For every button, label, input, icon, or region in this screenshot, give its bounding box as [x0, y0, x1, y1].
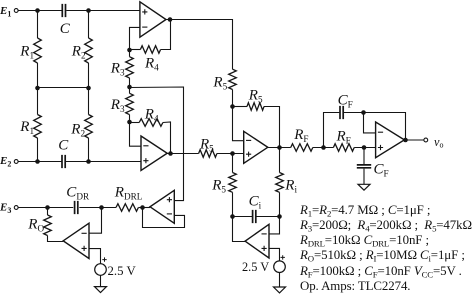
wire U3 output down to Ri: [279, 148, 281, 173]
voltage source 2.5 V (U4 ref): [274, 261, 286, 273]
svg-text:R5: R5: [211, 178, 226, 195]
node RF midpoint: [321, 145, 326, 150]
wire RF1 to RF2: [313, 147, 334, 149]
wire CF to U7 output: [344, 113, 406, 141]
capacitor CF (feedback): [340, 106, 343, 119]
wire U2 - input to R4b node: [130, 123, 142, 147]
wire node to R5 bottom: [232, 154, 234, 173]
svg-text:R3: R3: [110, 97, 125, 114]
electrode terminal E3: [14, 206, 18, 210]
node R3a/R4a junction: [127, 48, 132, 53]
wire R1b to E2 row: [37, 138, 39, 162]
resistor R1 (lower): [34, 115, 42, 139]
wire node to Ci: [233, 216, 253, 218]
wire U7 - input to output net: [364, 113, 376, 133]
capacitor Ci: [253, 210, 256, 223]
resistor R4 (U2 feedback): [139, 119, 163, 127]
resistor R2 (upper): [85, 38, 93, 63]
node CF/U7 - input: [361, 110, 366, 115]
node U7 output: [403, 138, 408, 143]
svg-text:R2: R2: [70, 121, 85, 138]
wire R5v to feedback node: [232, 90, 234, 107]
output terminal vo: [424, 138, 428, 142]
wire R5 to U3 + input: [217, 153, 244, 155]
node CDR/RDRL junction: [99, 205, 104, 210]
capacitor C (E1 coupling): [62, 4, 65, 17]
resistor RO: [44, 215, 52, 236]
ground (U4 ref): [274, 287, 286, 293]
wire node down to CF2: [363, 148, 365, 165]
node mid rail right: [86, 86, 91, 91]
node U1 output: [168, 17, 173, 22]
svg-text:Ri: Ri: [284, 178, 297, 195]
resistor RF (first): [291, 144, 313, 152]
wire common-mode sense to U5 + input: [130, 87, 184, 201]
wire node to R5 feedback: [233, 106, 248, 108]
resistor RDRL: [116, 204, 138, 212]
svg-text:Ci: Ci: [249, 194, 262, 211]
wire U6 + input to 2.5V source: [89, 249, 101, 264]
wire node to R2a: [88, 11, 90, 39]
component values text: [300, 203, 474, 295]
wire C1 to op-amp U1 + input: [66, 10, 140, 12]
wire E3 to CDR: [18, 207, 73, 209]
wire CF2 to ground: [363, 169, 365, 185]
svg-text:R1: R1: [19, 44, 34, 61]
wire E2 to capacitor C2: [18, 161, 62, 163]
wire RF midpoint up to CF: [324, 113, 340, 148]
wire source to ground: [100, 275, 102, 286]
wire Ci to node: [256, 216, 279, 218]
wire R3b to R4b node: [129, 115, 131, 123]
resistor R1 (upper): [34, 38, 42, 63]
wire node to R4b: [130, 122, 140, 124]
wire E1 to capacitor C1: [18, 10, 62, 12]
resistor R5 (U3 input): [199, 150, 217, 158]
wire mid rail: [38, 87, 89, 89]
svg-text:vo: vo: [434, 135, 443, 149]
wire R2b to E2 row: [88, 138, 90, 162]
svg-text:2.5 V: 2.5 V: [242, 260, 269, 274]
svg-text:2.5 V: 2.5 V: [108, 264, 137, 278]
node Ci left: [230, 214, 235, 219]
wire C2 to op-amp U2 + input: [66, 161, 141, 163]
svg-text:CF: CF: [338, 92, 353, 109]
wire U6 - input to CDR node: [89, 208, 102, 234]
node E3/RO junction: [45, 205, 50, 210]
wire mid rail to R1b: [37, 88, 39, 115]
wire source to ground: [279, 273, 281, 288]
op-amp U7 (output): [376, 122, 405, 158]
node U7 + input: [362, 145, 367, 150]
svg-text:CDR: CDR: [66, 184, 90, 201]
input terminal E1: [14, 9, 18, 13]
wire U3 output to RF1: [268, 147, 291, 149]
node U2 output: [168, 151, 173, 156]
svg-text:E3: E3: [0, 202, 11, 215]
resistor RF (second): [333, 144, 354, 152]
svg-text:R1: R1: [19, 119, 34, 136]
node R3b/R4b junction: [127, 120, 132, 125]
wire node to R1a: [37, 11, 39, 39]
node U3 - network junction: [230, 104, 235, 109]
wire U4 - input up to Ci right node: [269, 217, 280, 234]
wire R5 bottom to Ci row: [232, 192, 234, 216]
wire U4 + input to 2.5V source: [269, 248, 280, 261]
svg-text:R5: R5: [212, 75, 227, 92]
op-amp U2: [141, 136, 167, 171]
svg-text:R5: R5: [199, 136, 214, 153]
wire mid rail to R2b: [88, 88, 90, 115]
wire node to R4a: [130, 49, 141, 51]
node U3 + input / R5 bottom: [230, 151, 235, 156]
node Ci right: [277, 214, 282, 219]
resistor R3 (upper): [126, 57, 134, 78]
svg-text:RF: RF: [293, 127, 308, 144]
wire U1 output to R5 vertical: [166, 20, 233, 70]
wire RF2 to U7 + input: [354, 147, 375, 149]
wire R5 feedback to U3 output: [264, 107, 280, 148]
capacitor C (E2 coupling): [62, 155, 65, 168]
wire R1a to mid rail: [37, 63, 39, 88]
op-amp U3: [244, 131, 268, 163]
wire U3 - input to node: [233, 107, 244, 141]
ground (CF): [358, 184, 370, 190]
capacitor CF (to ground): [357, 165, 371, 168]
wire RO to U6 output: [48, 236, 64, 242]
svg-text:R4: R4: [144, 106, 159, 123]
svg-text:RDRL: RDRL: [114, 184, 143, 201]
node U5 output/feedback: [140, 205, 145, 210]
wire R3a to R3b: [129, 78, 131, 93]
wire to R3a: [129, 50, 131, 57]
capacitor CDR: [75, 201, 78, 214]
wire R2a to mid rail: [88, 63, 90, 88]
voltage source 2.5 V (U6 ref): [95, 264, 107, 276]
op-amp U4: [245, 224, 269, 258]
wire U5 output to RDRL: [138, 207, 150, 209]
resistor R5 (from U1 output): [229, 69, 237, 89]
wire Ri to Ci row: [279, 192, 281, 216]
resistor Ri: [276, 173, 284, 193]
wire node to RO: [47, 208, 49, 216]
svg-text:E1: E1: [0, 5, 11, 18]
input terminal E2: [14, 160, 18, 164]
wire R4a to U1 output: [161, 20, 171, 50]
resistor R3 (lower): [126, 93, 134, 114]
node E1/R1a junction: [35, 8, 40, 13]
wire U4 output to Ci left node: [233, 217, 246, 242]
wire CDR to RDRL: [79, 207, 116, 209]
node E2/R1b junction: [35, 159, 40, 164]
wire U7 output to vo terminal: [404, 139, 424, 141]
resistor R2 (lower): [85, 115, 93, 139]
op-amp U1: [140, 2, 166, 37]
op-amp U5 (DRL driver): [150, 190, 174, 223]
svg-text:RO: RO: [27, 216, 44, 233]
node C1/R2a junction: [86, 8, 91, 13]
svg-text:C: C: [58, 137, 69, 153]
svg-text:R3: R3: [110, 60, 125, 77]
op-amp U6 (E3 buffer): [63, 223, 89, 258]
ground (U6 ref): [95, 287, 107, 293]
svg-text:RF: RF: [336, 129, 351, 146]
svg-text:R2: R2: [71, 44, 86, 61]
node C2/R2b junction: [86, 159, 91, 164]
resistor R5 (U3 feedback): [247, 103, 264, 111]
svg-text:R5: R5: [248, 88, 263, 105]
resistor R5 (bottom): [229, 173, 237, 193]
svg-text:E2: E2: [0, 155, 11, 168]
resistor R4 (U1 feedback): [140, 46, 160, 54]
svg-text:R4: R4: [144, 55, 159, 72]
svg-text:C: C: [60, 21, 71, 37]
svg-text:CF: CF: [374, 162, 389, 179]
wire U1 - input to R4a node: [130, 27, 140, 50]
wire U5 feedback loop: [143, 208, 185, 228]
node mid rail left: [35, 86, 40, 91]
wire U2 output to R5 mid: [167, 153, 198, 155]
wire R4b to U2 output: [163, 122, 171, 154]
node U3 output: [277, 145, 282, 150]
node R3 midpoint (common-mode sense): [127, 85, 132, 90]
